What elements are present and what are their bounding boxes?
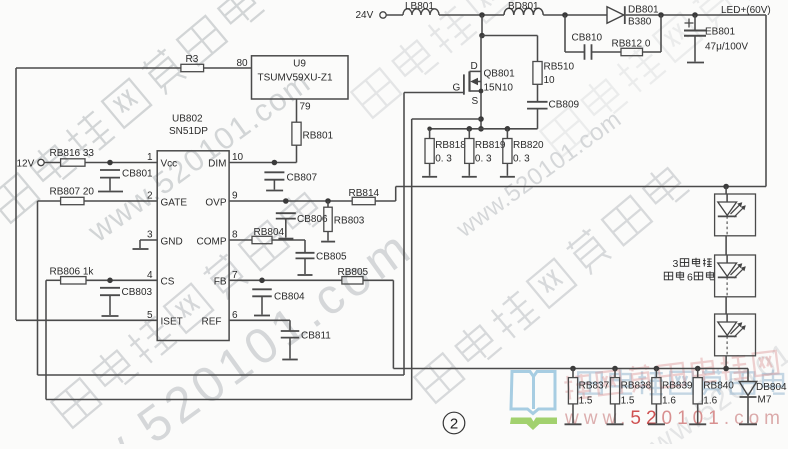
svg-text:9: 9: [232, 191, 238, 202]
svg-text:RB805: RB805: [338, 267, 369, 278]
svg-text:CB809: CB809: [549, 100, 580, 111]
svg-text:3: 3: [673, 258, 679, 270]
svg-text:DB801: DB801: [628, 5, 659, 16]
svg-text:7: 7: [232, 270, 238, 281]
svg-text:GATE: GATE: [161, 198, 188, 209]
svg-text:D: D: [471, 61, 478, 72]
svg-text:COMP: COMP: [197, 237, 227, 248]
svg-text:5: 5: [147, 310, 153, 321]
svg-text:RB807 20: RB807 20: [50, 187, 95, 198]
svg-text:CB807: CB807: [287, 173, 318, 184]
svg-text:1.5: 1.5: [579, 396, 593, 407]
svg-text:2: 2: [147, 191, 153, 202]
svg-text:CB803: CB803: [122, 287, 153, 298]
svg-text:1.5: 1.5: [621, 396, 635, 407]
svg-text:UB802: UB802: [172, 114, 203, 125]
svg-text:12V: 12V: [17, 159, 35, 170]
svg-text:0. 3: 0. 3: [435, 154, 452, 165]
svg-text:6: 6: [232, 310, 238, 321]
svg-text:CB804: CB804: [274, 292, 305, 303]
svg-text:U9: U9: [293, 59, 306, 70]
svg-text:0. 3: 0. 3: [475, 154, 492, 165]
svg-text:CS: CS: [161, 276, 175, 287]
svg-text:10: 10: [544, 75, 556, 86]
svg-text:REF: REF: [202, 316, 222, 327]
svg-text:RB510: RB510: [544, 62, 575, 73]
svg-text:TSUMV59XU-Z1: TSUMV59XU-Z1: [258, 73, 333, 84]
svg-text:DIM: DIM: [208, 159, 226, 170]
svg-text:RB820: RB820: [513, 140, 544, 151]
svg-text:BD801: BD801: [508, 1, 539, 12]
svg-text:R3: R3: [186, 54, 199, 65]
svg-text:1.6: 1.6: [703, 396, 717, 407]
svg-text:RB839: RB839: [662, 381, 693, 392]
svg-text:47μ/100V: 47μ/100V: [705, 42, 748, 53]
svg-text:CB801: CB801: [122, 169, 153, 180]
svg-text:CB805: CB805: [316, 252, 347, 263]
svg-text:6: 6: [687, 272, 693, 284]
svg-text:CB810: CB810: [572, 33, 603, 44]
svg-text:0. 3: 0. 3: [513, 154, 530, 165]
svg-text:RB803: RB803: [334, 215, 365, 226]
svg-text:OVP: OVP: [205, 198, 226, 209]
svg-text:ISET: ISET: [161, 316, 183, 327]
svg-text:M7: M7: [758, 395, 772, 406]
svg-text:LED+(60V): LED+(60V): [721, 5, 771, 16]
svg-text:RB804: RB804: [254, 227, 285, 238]
svg-text:RB806 1k: RB806 1k: [50, 266, 95, 277]
svg-text:B380: B380: [628, 17, 652, 28]
svg-text:RB838: RB838: [621, 381, 652, 392]
svg-text:2: 2: [450, 416, 458, 433]
svg-text:3: 3: [147, 230, 153, 241]
svg-text:4: 4: [147, 270, 153, 281]
svg-text:1.6: 1.6: [662, 396, 676, 407]
svg-text:CB811: CB811: [301, 331, 331, 342]
svg-text:RB801: RB801: [303, 131, 334, 142]
svg-text:S: S: [472, 96, 479, 107]
svg-text:LB801: LB801: [405, 1, 434, 12]
svg-text:RB812 0: RB812 0: [612, 39, 651, 50]
svg-text:79: 79: [300, 102, 312, 113]
svg-text:RB814: RB814: [349, 188, 380, 199]
svg-text:24V: 24V: [356, 10, 374, 21]
svg-text:QB801: QB801: [484, 69, 516, 80]
svg-text:8: 8: [232, 230, 238, 241]
svg-text:GND: GND: [161, 237, 183, 248]
svg-text:RB819: RB819: [475, 140, 506, 151]
svg-text:FB: FB: [214, 276, 227, 287]
svg-text:10: 10: [232, 152, 244, 163]
svg-text:Vcc: Vcc: [161, 159, 178, 170]
svg-text:www.520101.com: www.520101.com: [564, 408, 785, 429]
svg-text:RB816 33: RB816 33: [50, 148, 95, 159]
svg-text:80: 80: [237, 58, 249, 69]
svg-text:RB840: RB840: [703, 381, 734, 392]
svg-text:15N10: 15N10: [484, 83, 514, 94]
svg-text:1: 1: [147, 152, 153, 163]
svg-text:RB818: RB818: [435, 140, 466, 151]
svg-text:SN51DP: SN51DP: [169, 126, 208, 137]
svg-text:RB837: RB837: [579, 381, 610, 392]
svg-text:EB801: EB801: [705, 27, 735, 38]
svg-text:DB804: DB804: [756, 382, 787, 393]
